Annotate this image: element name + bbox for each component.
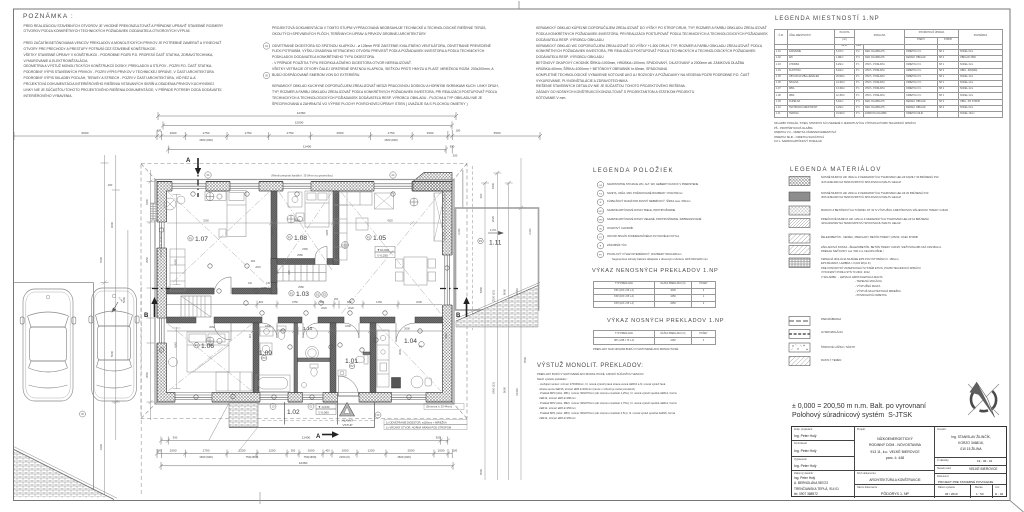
- svg-text:4320: 4320: [387, 219, 393, 223]
- svg-text:500: 500: [291, 449, 296, 453]
- svg-text:2650: 2650: [145, 372, 149, 378]
- svg-text:115: 115: [287, 270, 291, 275]
- svg-text:-0,030: -0,030: [458, 228, 461, 235]
- svg-text:4143: 4143: [174, 259, 178, 265]
- svg-text:PV: PV: [599, 254, 602, 256]
- svg-text:9000: 9000: [503, 288, 507, 295]
- room 1.08 bed: [305, 191, 329, 227]
- svg-text:S2: S2: [323, 294, 327, 297]
- brick paved triangle bottom-left: [14, 450, 111, 498]
- svg-text:1.02: 1.02: [287, 409, 300, 416]
- svg-text:1.07: 1.07: [195, 236, 208, 243]
- fold tick bottom: [259, 492, 261, 504]
- corridor top wall (1.07 south): [167, 288, 215, 294]
- heading POZNAMKA: [23, 13, 74, 20]
- svg-text:1750: 1750: [203, 131, 210, 135]
- title block col 3: [935, 427, 1006, 498]
- svg-text:P1: P1: [288, 237, 292, 240]
- TV unit top wall: [375, 193, 394, 209]
- title block col 1: [792, 427, 855, 498]
- svg-text:2350: 2350: [302, 247, 308, 251]
- svg-text:▽-0,250: ▽-0,250: [377, 253, 388, 257]
- attic ladder central: [277, 265, 326, 282]
- svg-text:04: 04: [392, 174, 395, 177]
- room 1.05 coffee table: [356, 218, 368, 230]
- svg-text:HLAVNÝ: HLAVNÝ: [342, 419, 354, 423]
- bathroom sink: [260, 327, 273, 336]
- ceiling slope dash-dot diagonals: [168, 192, 441, 391]
- svg-text:12360: 12360: [299, 461, 308, 465]
- svg-text:1.05: 1.05: [373, 235, 386, 242]
- svg-text:1750: 1750: [388, 131, 395, 135]
- swatch DT30: [789, 206, 810, 215]
- svg-text:2600: 2600: [404, 327, 410, 331]
- room 1.07 desk: [205, 192, 226, 201]
- svg-text:1450: 1450: [376, 300, 382, 304]
- window left W6: [157, 318, 168, 343]
- rooms table: [774, 29, 1003, 118]
- svg-text:4500: 4500: [479, 468, 483, 475]
- rotated left dim labels: [99, 183, 126, 450]
- svg-text:2200: 2200: [416, 300, 422, 304]
- dim line 11400: [168, 149, 446, 151]
- svg-text:6020: 6020: [445, 333, 448, 339]
- predstena 1.01: [363, 352, 370, 355]
- svg-text:▽-0,060: ▽-0,060: [318, 411, 329, 415]
- WC 1.02 fixture: [310, 364, 318, 368]
- svg-text:1800: 1800: [145, 199, 149, 205]
- svg-text:115: 115: [248, 333, 252, 338]
- svg-text:180: 180: [456, 129, 461, 133]
- section line B stub right: [440, 288, 458, 290]
- svg-text:2580: 2580: [297, 253, 303, 257]
- rooms table footnotes: [774, 122, 916, 145]
- entrance triangle symbol: [340, 403, 355, 417]
- small circle marker in driveway: [80, 411, 86, 417]
- svg-text:5000: 5000: [110, 350, 114, 357]
- svg-text:1200: 1200: [368, 449, 375, 453]
- 1.01 sink: [338, 370, 346, 376]
- svg-text:G4: G4: [599, 185, 603, 187]
- svg-text:1500 (900): 1500 (900): [397, 455, 411, 459]
- window top W1: [172, 181, 206, 192]
- wall stub below 1.07|1.08 wall: [271, 259, 277, 283]
- svg-text:1000: 1000: [170, 131, 177, 135]
- svg-text:2020: 2020: [255, 266, 261, 269]
- svg-text:P1: P1: [290, 293, 294, 296]
- svg-text:12360: 12360: [297, 111, 306, 115]
- svg-text:1.01: 1.01: [345, 358, 358, 365]
- roller blind box outside W5: [151, 203, 158, 220]
- wall 1.08 south: [271, 259, 315, 265]
- room 1.05 corner sofa: [334, 192, 372, 205]
- svg-text:01: 01: [310, 406, 313, 409]
- driveway dashed edge: [140, 287, 142, 494]
- room 1.06 wardrobe: [216, 372, 252, 391]
- svg-text:750(1650): 750(1650): [304, 455, 317, 459]
- svg-text:250: 250: [334, 297, 339, 301]
- svg-text:4300: 4300: [99, 443, 103, 450]
- svg-text:1050: 1050: [342, 449, 349, 453]
- notes column 3: [536, 26, 771, 102]
- level box room 1.05: [375, 247, 395, 253]
- room 1.06 bed: [187, 332, 229, 372]
- kitchen dark stove block: [392, 378, 401, 389]
- dimenzia note box right: [424, 404, 464, 410]
- chain ticks: [155, 130, 454, 140]
- slope arrow on driveway: [112, 302, 118, 312]
- kitchen 1.04 counter along left wall: [377, 330, 389, 387]
- svg-text:180: 180: [157, 449, 162, 453]
- svg-text:6000: 6000: [82, 131, 89, 135]
- notes column 1: [24, 24, 224, 100]
- terrace roof edge dashed: [471, 166, 473, 330]
- svg-text:2150 (0): 2150 (0): [339, 455, 349, 459]
- svg-text:-0,030: -0,030: [529, 228, 532, 235]
- svg-text:300: 300: [436, 436, 441, 440]
- svg-text:3000: 3000: [271, 229, 275, 235]
- svg-text:A: A: [186, 158, 191, 164]
- svg-text:00: 00: [377, 414, 380, 417]
- svg-text:04: 04: [265, 45, 268, 48]
- wall outer/inner edges: [157, 182, 452, 403]
- wall 1.06|1.09: [253, 323, 259, 393]
- svg-text:(Rebrík prerpínať kanálik h. 3: (Rebrík prerpínať kanálik h. 33-54mm so …: [271, 173, 333, 177]
- svg-text:1x VRCHNÝ OTVOR, HORNÁ HRANA P: 1x VRCHNÝ OTVOR, HORNÁ HRANA POD STROPOM: [386, 425, 451, 429]
- svg-text:3185: 3185: [325, 229, 329, 235]
- section line B stub left: [152, 288, 170, 290]
- brick walkway at terrace: [456, 286, 538, 328]
- svg-text:P2: P2: [351, 365, 355, 368]
- wall 1.10|1.01: [330, 323, 336, 393]
- svg-text:180: 180: [157, 129, 162, 133]
- svg-text:1250: 1250: [269, 449, 276, 453]
- swatch strkove lozko: [789, 343, 810, 352]
- room 1.05 TV board: [434, 193, 445, 241]
- svg-text:1750: 1750: [203, 449, 210, 453]
- svg-text:(Dimenzia h. 33-44mm): (Dimenzia h. 33-44mm): [426, 406, 452, 409]
- swatch hydroizolacia: [789, 330, 810, 339]
- svg-text:9600: 9600: [503, 386, 507, 393]
- svg-text:10: 10: [272, 406, 275, 409]
- svg-text:06: 06: [81, 413, 84, 416]
- top dim labels: [82, 111, 501, 157]
- room 1.06 plant: [169, 358, 178, 367]
- svg-text:135: 135: [266, 282, 271, 285]
- terrace slope arrow: [488, 231, 503, 234]
- svg-text:(Zateplenie hr. 33-46mm): (Zateplenie hr. 33-46mm): [160, 232, 163, 257]
- svg-text:1.03: 1.03: [296, 291, 309, 298]
- svg-text:200: 200: [453, 154, 458, 158]
- svg-text:300: 300: [173, 436, 178, 440]
- window bottom W8: [260, 393, 288, 403]
- svg-text:2400 (15): 2400 (15): [491, 382, 495, 394]
- svg-text:3000: 3000: [110, 221, 114, 228]
- svg-text:2020: 2020: [491, 215, 495, 222]
- window left W5: [157, 222, 168, 248]
- svg-text:05: 05: [265, 75, 268, 78]
- dining table with chairs: [404, 257, 427, 285]
- fold diagonal bottom-right corner: [1010, 501, 1024, 512]
- svg-text:2500: 2500: [337, 131, 344, 135]
- dim line 12360 bottom: [161, 465, 453, 467]
- svg-text:1800: 1800: [491, 182, 495, 189]
- WC partition inside middle column: [298, 358, 331, 362]
- svg-text:11400: 11400: [302, 436, 311, 440]
- technical room 1.10 boiler + tank: [307, 328, 318, 339]
- svg-text:B: B: [144, 313, 149, 319]
- svg-text:7060: 7060: [99, 256, 103, 263]
- svg-text:SP1: SP1: [598, 211, 603, 213]
- note circles for top text column 2: [263, 43, 269, 49]
- svg-text:3250: 3250: [203, 219, 209, 223]
- svg-text:1800: 1800: [265, 324, 271, 328]
- svg-text:B: B: [456, 313, 461, 319]
- dim line 300/11400/300: [161, 440, 448, 442]
- svg-text:1750: 1750: [245, 131, 252, 135]
- svg-text:B: B: [600, 246, 602, 248]
- svg-text:R: R: [600, 202, 602, 204]
- svg-text:8450: 8450: [479, 286, 483, 293]
- svg-text:2500: 2500: [408, 449, 415, 453]
- top rooms dimension chain: [167, 194, 442, 389]
- svg-text:2520 (15): 2520 (15): [491, 290, 495, 302]
- svg-text:300: 300: [450, 145, 455, 149]
- svg-text:100: 100: [248, 282, 253, 285]
- dim line 12360: [158, 115, 456, 117]
- swatch zelezobeton: [789, 234, 810, 243]
- svg-text:04: 04: [207, 174, 210, 177]
- svg-text:1.11: 1.11: [489, 240, 502, 247]
- svg-text:3500: 3500: [523, 356, 527, 363]
- svg-text:990: 990: [347, 300, 352, 304]
- swatch parozabrana: [789, 317, 810, 326]
- wall between 1.07 and 1.08: [271, 191, 277, 294]
- swatch nosne murivo 300: [789, 177, 810, 186]
- title block col 2: [855, 427, 935, 498]
- svg-text:K1: K1: [599, 237, 602, 239]
- bottom dim labels: [157, 436, 458, 465]
- svg-text:2580: 2580: [298, 285, 304, 289]
- svg-text:1750: 1750: [287, 131, 294, 135]
- svg-text:4143: 4143: [174, 342, 178, 348]
- svg-text:1500 (900): 1500 (900): [384, 138, 398, 142]
- svg-text:900: 900: [251, 259, 256, 263]
- wall between 1.08 and 1.05: [333, 191, 339, 265]
- svg-text:3250: 3250: [209, 325, 215, 329]
- wall 1.09|1.10 partition: [294, 323, 298, 393]
- window bottom W10: [392, 393, 427, 403]
- ceiling lamp symbols: [206, 193, 418, 346]
- svg-text:2950: 2950: [145, 257, 149, 263]
- corridor bottom wall segments: [167, 317, 197, 323]
- svg-text:1000: 1000: [308, 449, 315, 453]
- svg-text:S1: S1: [599, 194, 602, 196]
- svg-text:1000: 1000: [438, 449, 445, 453]
- svg-text:S1: S1: [316, 294, 320, 297]
- swatch tepelna izolacia: [789, 258, 810, 268]
- entry door opening D1: [338, 393, 360, 403]
- svg-text:11400: 11400: [303, 145, 312, 149]
- svg-text:A: A: [316, 434, 321, 440]
- svg-text:3000: 3000: [398, 349, 402, 355]
- svg-text:12360: 12360: [515, 288, 519, 296]
- svg-text:400: 400: [325, 449, 330, 453]
- terrace sliding door (right wall): [442, 255, 453, 305]
- digestor note boxes: [375, 412, 381, 418]
- bathroom WC: [277, 326, 286, 330]
- swatch rastly teren: [789, 357, 810, 366]
- svg-text:P4: P4: [479, 240, 483, 243]
- svg-text:1.04: 1.04: [404, 338, 417, 345]
- washing machine: [260, 343, 272, 355]
- fold tick top center: [518, 1, 520, 9]
- svg-text:695: 695: [276, 269, 280, 274]
- svg-text:1500 (900): 1500 (900): [199, 455, 213, 459]
- bathroom 1.09 bathtub: [256, 375, 290, 392]
- svg-text:▼-0,030: ▼-0,030: [318, 405, 330, 409]
- swatch zakladova doska: [789, 246, 810, 255]
- svg-text:1550: 1550: [292, 300, 298, 304]
- window bottom W9: [303, 393, 324, 403]
- 1.01 WC fixture: [364, 355, 368, 364]
- window top W4: [374, 181, 412, 192]
- svg-text:OD: OD: [599, 228, 603, 230]
- svg-text:1135: 1135: [261, 286, 267, 290]
- svg-text:VSTUP: VSTUP: [342, 423, 352, 427]
- svg-text:1.09: 1.09: [259, 350, 272, 357]
- svg-text:P1: P1: [189, 238, 193, 241]
- swatch nosne murivo 200: [789, 192, 810, 201]
- svg-text:▼±0,000: ▼±0,000: [377, 248, 389, 252]
- entry level boxes: [316, 404, 336, 410]
- bottom rooms dimension chain: [167, 327, 442, 335]
- window top W2: [230, 181, 259, 192]
- room 1.08 desk: [288, 192, 302, 207]
- insulation outer offset line: [155, 180, 454, 405]
- svg-text:1500 (900): 1500 (900): [199, 138, 213, 142]
- svg-text:P1: P1: [367, 237, 371, 240]
- room 1.07 wardrobe: [170, 249, 185, 291]
- svg-text:SP2: SP2: [598, 220, 603, 222]
- svg-text:1690: 1690: [345, 324, 351, 328]
- svg-text:12360: 12360: [515, 388, 519, 396]
- room 1.07 plants: [164, 198, 176, 210]
- svg-text:300: 300: [479, 193, 483, 198]
- svg-text:1.08: 1.08: [294, 235, 307, 242]
- wall 1.01|1.04: [370, 323, 376, 393]
- svg-text:12000: 12000: [295, 121, 304, 125]
- section line A-A top stub: [197, 166, 199, 197]
- svg-text:180: 180: [453, 449, 458, 453]
- swatch prieckove murivo: [789, 219, 810, 228]
- svg-text:1x ODVETRANIE DIGESTOR, ø150mm: 1x ODVETRANIE DIGESTOR, ø150mm + MRIEŽKA: [386, 419, 447, 424]
- notes column 2: [272, 26, 500, 108]
- svg-text:3500: 3500: [494, 131, 501, 135]
- window top W3: [283, 181, 311, 192]
- svg-text:2020: 2020: [348, 306, 354, 310]
- kitchen round table: [411, 376, 423, 388]
- brick entrance steps: [229, 403, 258, 427]
- corridor attic ladder: [181, 296, 211, 317]
- svg-text:1500: 1500: [427, 131, 434, 135]
- property boundary: [14, 282, 94, 284]
- bottom chain: [157, 453, 452, 455]
- svg-text:1000: 1000: [170, 449, 177, 453]
- svg-text:800: 800: [259, 300, 264, 304]
- window bottom W7: [175, 393, 212, 403]
- svg-text:1,0%: 1,0%: [490, 228, 497, 232]
- dim chain line full width: [14, 135, 540, 137]
- top-right corner wall block: [413, 173, 452, 192]
- svg-text:180: 180: [108, 183, 113, 187]
- dim line 12000: [163, 125, 452, 127]
- svg-text:2020: 2020: [321, 306, 327, 310]
- svg-text:1250: 1250: [239, 449, 246, 453]
- corridor dimension chain: [167, 301, 442, 309]
- svg-text:750(1650): 750(1650): [246, 455, 259, 459]
- room 1.07 bed: [227, 191, 246, 237]
- svg-text:P3: P3: [263, 357, 267, 360]
